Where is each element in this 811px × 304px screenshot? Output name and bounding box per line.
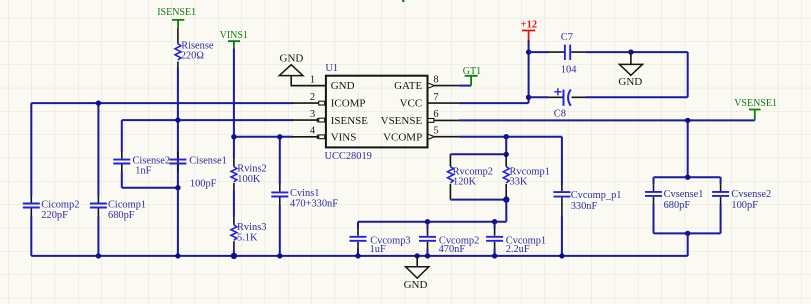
svg-text:5.1K: 5.1K [237, 232, 258, 243]
svg-text:470nF: 470nF [439, 244, 466, 255]
wire C8 row right segment [586, 96, 688, 98]
svg-text:ICOMP: ICOMP [331, 98, 366, 110]
stray green mark top edge [402, 0, 404, 2]
svg-text:1nF: 1nF [135, 166, 151, 177]
svg-text:VCOMP: VCOMP [383, 132, 422, 144]
svg-text:8: 8 [433, 75, 438, 86]
junction bus/Rvins3 [231, 253, 237, 259]
resistor Rvins2 [231, 158, 267, 191]
svg-text:5: 5 [433, 126, 438, 137]
junction pin6/Cvsense [685, 118, 690, 123]
junction Cvsense top [685, 175, 690, 180]
svg-text:100pF: 100pF [731, 200, 758, 211]
svg-text:220pF: 220pF [41, 210, 68, 221]
capacitor Cvsense2 [712, 184, 771, 211]
svg-text:1: 1 [310, 75, 315, 86]
svg-text:U1: U1 [325, 63, 338, 74]
svg-text:Cvsense1: Cvsense1 [664, 189, 704, 200]
junction Cvcomp2 top [425, 219, 430, 224]
svg-text:GATE: GATE [394, 80, 422, 92]
svg-text:120K: 120K [453, 177, 477, 188]
wire Rvcomp top rail [450, 153, 506, 155]
pin 7 stub [427, 92, 458, 103]
wire Cvsense loop [654, 177, 721, 233]
bottom bus wire [31, 255, 687, 257]
junction pin2/Cicomp1 [96, 100, 101, 105]
junction C8 row [526, 95, 531, 100]
junction bus/Cvcomp3 [355, 253, 360, 258]
junction +12/C7 rail [526, 49, 531, 54]
resistor Risense [175, 28, 214, 68]
svg-text:GND: GND [404, 279, 428, 291]
capacitor C7 [529, 32, 688, 75]
capacitor Cicomp2 [23, 196, 80, 222]
svg-text:104: 104 [561, 64, 577, 75]
svg-text:VSENSE1: VSENSE1 [734, 98, 777, 109]
wire pin4 row [234, 136, 293, 138]
svg-text:Cisense1: Cisense1 [189, 155, 227, 166]
svg-text:GND: GND [331, 80, 355, 92]
junction Cvcomp1 top [492, 219, 497, 224]
wire Cvins1 branch [279, 137, 281, 256]
svg-text:VCC: VCC [400, 98, 423, 110]
junction pin3/ISENSE [175, 117, 180, 122]
svg-text:C8: C8 [554, 109, 566, 120]
svg-text:ISENSE1: ISENSE1 [157, 7, 196, 18]
wire C7 rail right corner down [687, 52, 689, 97]
junction Rvcomp bottom [503, 196, 509, 202]
junction bus/Cvcomp2 [425, 253, 430, 258]
svg-text:470+330nF: 470+330nF [290, 199, 338, 210]
capacitor Cvsense1 [645, 184, 703, 211]
wire Rvcomp vertical [505, 137, 507, 155]
svg-text:ISENSE: ISENSE [331, 115, 369, 127]
svg-text:2: 2 [310, 92, 315, 103]
power +12 [521, 19, 537, 40]
wire ISENSE vertical [177, 68, 179, 188]
svg-text:C7: C7 [561, 32, 573, 43]
svg-text:Cvcomp_p1: Cvcomp_p1 [571, 190, 622, 201]
wire Rvins3 to bus [233, 250, 235, 256]
junction pin4/VINS [231, 134, 236, 139]
junction Rvcomp top rail [504, 152, 509, 157]
pin 1 stub [292, 75, 325, 86]
pin 2 stub [292, 92, 325, 105]
wire Cisense2 branch [121, 120, 123, 188]
capacitor Cisense2 [113, 152, 170, 177]
capacitor Cvins1 [271, 185, 338, 210]
wire ISENSE vertical to bus [177, 188, 179, 256]
capacitor Cvcomp1 [486, 222, 546, 256]
junction bus/Cvins1 [277, 253, 282, 258]
wire Rvcomp bottom to Cvcomp rail [505, 200, 507, 222]
junction Cisense link [175, 185, 180, 190]
wire pin3 row [122, 119, 293, 121]
wire pin5 corner down to Cvcomp_p1 [561, 137, 563, 185]
svg-text:Cicomp1: Cicomp1 [108, 199, 146, 210]
ground GND bottom [404, 253, 429, 291]
svg-text:Rvins2: Rvins2 [237, 164, 266, 175]
wire left vertical (Cicomp2 branch) [30, 103, 32, 256]
wire pin7 row [459, 102, 529, 104]
svg-text:100pF: 100pF [190, 178, 217, 189]
svg-text:6: 6 [433, 109, 438, 120]
wire Cisense link [122, 187, 178, 189]
svg-text:VINS1: VINS1 [220, 30, 248, 41]
wire Cicomp1 branch [97, 103, 99, 256]
capacitor Cvcomp_p1 [553, 185, 621, 216]
junction bus/Cvcomp1 [492, 253, 497, 258]
svg-text:680pF: 680pF [108, 210, 135, 221]
svg-text:3: 3 [310, 109, 315, 120]
net label ISENSE1 [157, 7, 196, 28]
svg-text:+12: +12 [521, 19, 537, 30]
junction pin4/Cvins1 [277, 134, 282, 139]
net label VSENSE1 [734, 98, 777, 121]
svg-text:680pF: 680pF [664, 200, 691, 211]
svg-text:Cicomp2: Cicomp2 [41, 199, 79, 210]
wire pin2 row [31, 102, 293, 104]
svg-text:Cvsense2: Cvsense2 [731, 189, 771, 200]
pin 4 stub [292, 126, 325, 139]
resistor Rvins3 [231, 217, 266, 251]
svg-text:VINS: VINS [331, 132, 357, 144]
svg-text:2.2uF: 2.2uF [506, 244, 530, 255]
op-amp U1 UCC28019 IC body [325, 63, 428, 162]
capacitor Cvcomp3 [350, 222, 411, 256]
wire Rvcomp bottom rail [450, 199, 506, 201]
ground GND top-left [279, 53, 325, 86]
wire between Rvins2 and Rvins3 [233, 191, 235, 217]
net label GT1 [463, 66, 481, 86]
junction bus/Cicomp1 [96, 253, 101, 258]
wire Cvcomp top rail [358, 221, 506, 223]
wire Cvsense bottom to bus [687, 233, 689, 256]
wire +12 vertical [528, 40, 530, 103]
wire VINS1 vertical [233, 49, 235, 159]
junction Cvsense bottom [685, 231, 690, 236]
pin 3 stub [292, 109, 325, 122]
svg-text:1uF: 1uF [370, 244, 386, 255]
capacitor C8 polarized [529, 88, 586, 119]
wire pin6 row to VSENSE1 [459, 119, 755, 121]
svg-text:GND: GND [280, 53, 304, 65]
wire Cvcomp_p1 to bus [561, 215, 563, 256]
svg-text:220Ω: 220Ω [181, 51, 205, 62]
wire pin8 to GT1 [459, 85, 471, 87]
net label VINS1 [220, 30, 248, 48]
capacitor Cvcomp2 [419, 222, 479, 256]
svg-text:4: 4 [310, 126, 316, 137]
junction bus/Cvcomp_p1 [559, 253, 564, 258]
svg-text:VSENSE: VSENSE [381, 115, 423, 127]
wire VSENSE drop to Cvsense loop [687, 120, 689, 177]
pin 8 stub [427, 75, 458, 89]
pin 6 stub [427, 109, 458, 122]
wire pin5 row [459, 136, 562, 138]
svg-text:Cvins1: Cvins1 [290, 188, 319, 199]
svg-text:330nF: 330nF [571, 201, 598, 212]
pin 5 stub [427, 126, 458, 140]
junction pin5/Rvcomp [504, 134, 509, 139]
ground GND top-right [618, 49, 642, 87]
resistor Rvcomp2 [448, 154, 494, 199]
capacitor Cicomp1 [90, 196, 146, 222]
resistor Rvcomp1 [503, 154, 550, 199]
capacitor Cisense1 [169, 152, 226, 190]
svg-text:100K: 100K [237, 174, 261, 185]
svg-text:7: 7 [433, 92, 438, 103]
svg-text:GND: GND [618, 76, 642, 88]
svg-text:UCC28019: UCC28019 [325, 151, 372, 162]
junction bus/ISENSE branch [175, 253, 180, 258]
svg-text:33K: 33K [510, 177, 528, 188]
